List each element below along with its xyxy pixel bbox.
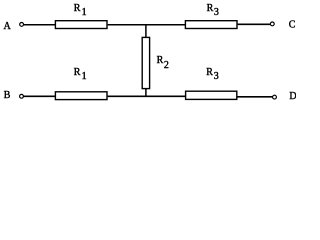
svg-text:1: 1	[82, 7, 87, 18]
terminal D	[273, 95, 277, 99]
svg-text:B: B	[4, 90, 11, 101]
wire top junction to R2	[145, 24, 147, 37]
svg-text:C: C	[289, 20, 296, 31]
resistor R3 (top)	[185, 21, 237, 29]
svg-text:3: 3	[214, 71, 219, 82]
terminal C	[270, 22, 274, 26]
wire R1 to junction to R3 (bottom)	[108, 95, 186, 97]
label R2	[157, 55, 169, 71]
wire R3 to C	[238, 23, 271, 25]
label R3 (top)	[207, 3, 219, 18]
resistor R1 (top)	[55, 21, 107, 29]
wire R1 to junction to R3 (top)	[108, 24, 185, 26]
svg-text:3: 3	[214, 7, 219, 18]
resistor R2	[142, 37, 149, 88]
svg-text:1: 1	[82, 71, 87, 82]
svg-text:A: A	[4, 21, 12, 32]
terminal B	[20, 94, 24, 98]
svg-text:2: 2	[164, 60, 169, 71]
label R1 (bottom)	[74, 67, 87, 82]
svg-text:R: R	[206, 67, 213, 78]
wire A to R1	[24, 24, 56, 26]
label R1 (top)	[74, 3, 87, 18]
svg-text:D: D	[289, 91, 296, 102]
resistor R3 (bottom)	[186, 91, 237, 99]
svg-text:R: R	[74, 3, 81, 14]
wire R3 to D	[237, 96, 272, 98]
terminal A	[20, 23, 24, 27]
svg-text:R: R	[157, 55, 164, 66]
label R3 (bottom)	[206, 67, 218, 82]
wire R2 to bottom junction	[145, 89, 147, 97]
wire B to R1	[24, 95, 56, 97]
resistor R1 (bottom)	[55, 92, 107, 100]
svg-text:R: R	[207, 3, 214, 14]
svg-text:R: R	[74, 67, 81, 78]
